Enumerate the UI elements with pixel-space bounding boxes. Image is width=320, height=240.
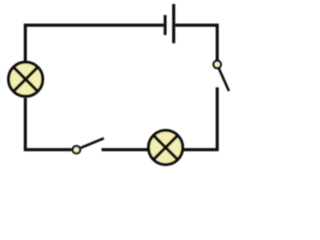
switch S2 open lever bbox=[219, 69, 229, 92]
wire bottom-left segment bbox=[25, 98, 71, 150]
switch S1 contact circle bbox=[73, 146, 81, 154]
wire top-left segment bbox=[25, 25, 163, 62]
wire right-lower segment bbox=[184, 87, 218, 149]
lamp L1 cross stroke 2 bbox=[13, 67, 38, 92]
lamp L2 cross stroke 2 bbox=[153, 135, 178, 160]
battery B1 long plate (positive) bbox=[172, 4, 175, 43]
battery B1 short plate (negative) bbox=[164, 15, 167, 35]
wire top-right segment bbox=[175, 25, 217, 60]
lamp L1 body bbox=[9, 62, 43, 96]
lamp L1 cross stroke 1 bbox=[13, 67, 38, 92]
switch S2 contact circle bbox=[213, 61, 221, 69]
wire bottom-middle segment bbox=[102, 148, 149, 151]
switch S1 open lever bbox=[81, 138, 104, 148]
lamp L2 cross stroke 1 bbox=[153, 135, 178, 160]
lamp L2 body bbox=[149, 130, 183, 164]
